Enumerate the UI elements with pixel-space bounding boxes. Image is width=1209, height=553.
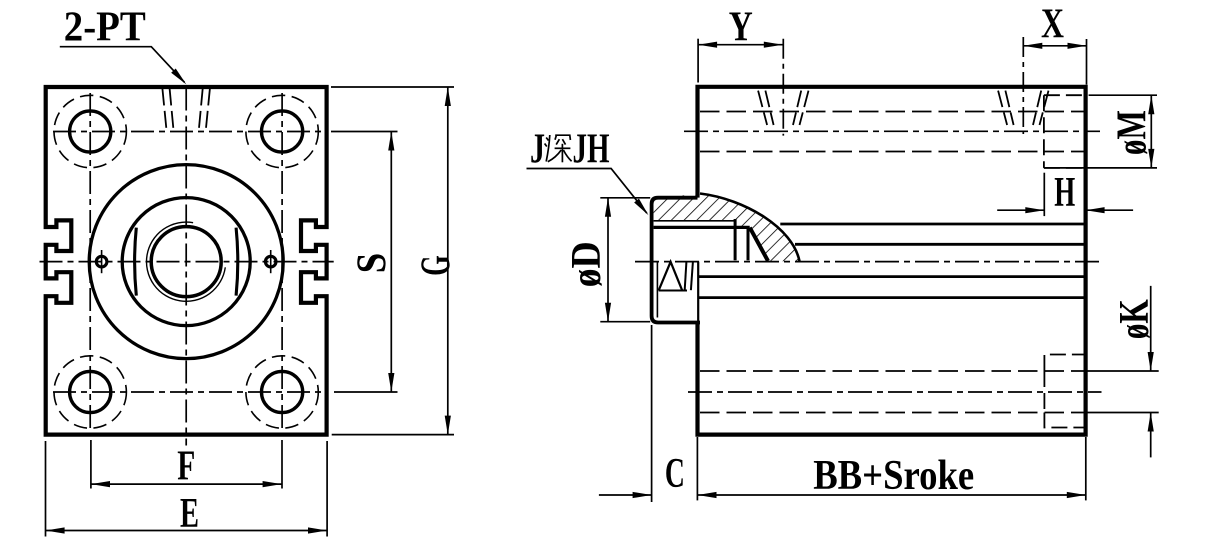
gland curve bbox=[700, 194, 800, 262]
hatched gland section bbox=[654, 194, 800, 261]
port hidden lines (left pair) bbox=[162, 89, 166, 129]
bolt-hole column centerline left bbox=[89, 93, 91, 431]
pin hole left bbox=[96, 256, 107, 267]
seal slant bbox=[750, 228, 768, 261]
central boss outer circle bbox=[89, 165, 283, 359]
bolt-hole column centerline right bbox=[281, 93, 283, 431]
dimension C bbox=[651, 325, 653, 502]
port passage hidden upper bbox=[700, 111, 1085, 113]
thread hole end wall bbox=[734, 219, 737, 260]
bore line lower bbox=[698, 296, 1085, 299]
svg-text:E: E bbox=[180, 491, 199, 537]
dimension øK bbox=[1086, 370, 1159, 372]
dimension X bbox=[1086, 39, 1088, 85]
svg-text:J: J bbox=[530, 126, 545, 172]
piston face line bbox=[697, 262, 699, 322]
vertical centerline of front view bbox=[185, 88, 187, 446]
dimension H bbox=[1043, 173, 1045, 216]
wrench flat right bbox=[236, 228, 238, 296]
port 1 taper hidden lines bbox=[758, 91, 767, 125]
bolt-hole row centerline top bbox=[53, 131, 325, 133]
port counterbore hidden box bbox=[1044, 95, 1085, 168]
svg-text:H: H bbox=[1054, 170, 1075, 216]
body outline with side sensor grooves bbox=[46, 87, 327, 435]
rear hole hidden upper bbox=[700, 370, 1085, 372]
svg-text:Y: Y bbox=[729, 4, 753, 50]
port passage hidden lower bbox=[700, 151, 1085, 153]
thread hole top line bbox=[654, 220, 736, 222]
leader J深JH bbox=[527, 169, 647, 214]
bolt hole bottom-left bbox=[70, 371, 111, 412]
rod line upper bbox=[795, 243, 1086, 246]
dimension Y bbox=[697, 39, 699, 83]
bolt-hole row centerline bottom bbox=[53, 391, 325, 393]
piston rod protrusion outline bbox=[652, 198, 700, 323]
thread symbol triangle bbox=[659, 262, 682, 291]
port hidden lines (right pair) bbox=[206, 89, 210, 129]
horizontal centerline of front view bbox=[40, 261, 334, 263]
rod bore circle bbox=[151, 227, 221, 297]
bolt hole top-left bbox=[70, 111, 111, 152]
svg-text:S: S bbox=[350, 253, 396, 274]
svg-text:øD: øD bbox=[564, 241, 610, 287]
svg-text:F: F bbox=[177, 444, 195, 490]
bolt hole bottom-right bbox=[262, 371, 303, 412]
seal groove wall bbox=[747, 227, 750, 260]
svg-text:G: G bbox=[414, 255, 460, 276]
bore line upper bbox=[780, 223, 1085, 226]
dimension S bbox=[331, 131, 398, 133]
leader 2-PT bbox=[60, 47, 185, 83]
dimension øD bbox=[600, 197, 650, 199]
bolt hole top-right bbox=[262, 111, 303, 152]
rear hole centerline bbox=[688, 391, 1102, 393]
svg-text:X: X bbox=[1041, 2, 1064, 48]
central boss inner circle bbox=[122, 198, 250, 326]
wrench flat left bbox=[135, 228, 137, 296]
main axis centerline bbox=[635, 261, 1102, 263]
dimension F bbox=[90, 440, 92, 489]
port passage centerline bbox=[684, 130, 1100, 132]
dimension BB+Sroke bbox=[1085, 437, 1087, 500]
svg-text:BB+Sroke: BB+Sroke bbox=[813, 453, 974, 499]
port 2 taper hidden lines bbox=[998, 91, 1007, 125]
port 1 axis bbox=[782, 39, 784, 136]
svg-text:øM: øM bbox=[1110, 110, 1156, 155]
dimension E bbox=[45, 441, 47, 537]
body outline bbox=[698, 87, 1086, 435]
thread hole major line (thick) bbox=[654, 226, 750, 229]
rod line lower bbox=[698, 275, 1085, 278]
pin hole right bbox=[265, 256, 276, 267]
svg-text:C: C bbox=[665, 451, 685, 497]
port 2 axis bbox=[1022, 37, 1024, 134]
rear hole hidden lower bbox=[700, 412, 1085, 414]
svg-text:øK: øK bbox=[1112, 299, 1158, 339]
svg-text:JH: JH bbox=[573, 126, 610, 172]
thread arc (thin, open at upper right) bbox=[147, 222, 226, 301]
hanzi 深 (hand drawn) bbox=[545, 135, 572, 162]
rear counterbore hidden box bbox=[1044, 355, 1085, 428]
dimension G bbox=[331, 86, 454, 88]
svg-text:2-PT: 2-PT bbox=[64, 5, 146, 51]
dimension øM bbox=[1089, 94, 1157, 96]
rod end inner line bbox=[656, 262, 658, 318]
